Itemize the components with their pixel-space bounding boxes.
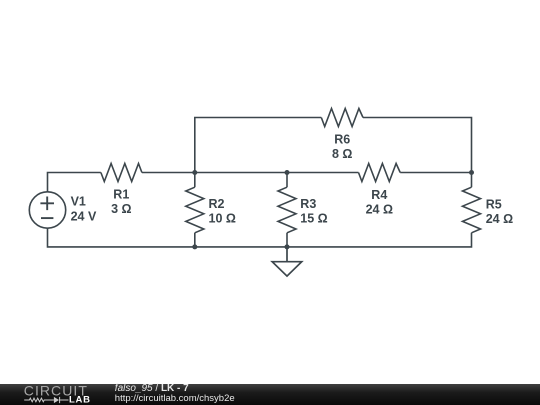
wire: R3 bottom stub: [286, 233, 288, 247]
CircuitLab logo resistor zigzag and diode glyph: [24, 397, 68, 403]
wire: R1 right to node A: [142, 172, 195, 174]
wire: R3 top stub: [286, 173, 288, 188]
node E junction dot (ground): [285, 244, 290, 249]
node B junction dot: [285, 170, 290, 175]
ground symbol: [272, 247, 302, 276]
voltage source V1 plus sign: [40, 197, 54, 211]
resistor R1 zigzag: [101, 164, 142, 182]
wire: bottom net (V1 bottom along bottom to R5 bottom): [48, 228, 472, 247]
svg-text:http://circuitlab.com/chsyb2e: http://circuitlab.com/chsyb2e: [115, 393, 235, 404]
resistor R6 zigzag: [321, 109, 363, 127]
voltage source V1 circle: [29, 192, 65, 228]
voltage source V1 minus sign: [41, 217, 53, 219]
wire: node B to R4 left: [287, 172, 359, 174]
wire: R6 right to node C via right top corner: [363, 118, 472, 173]
node D junction dot (R2 bottom): [192, 244, 197, 249]
footer bar: [0, 384, 540, 405]
wire: main net top-left (V1 top to R1 left): [48, 173, 101, 192]
resistor R2 zigzag: [186, 187, 204, 233]
wire: node A to node B: [195, 172, 287, 174]
node A junction dot: [192, 170, 197, 175]
wire: R2 bottom stub: [194, 233, 196, 247]
resistor R4 zigzag: [359, 164, 401, 182]
CircuitLab logo diode triangle: [54, 397, 59, 403]
wire: top branch node A up and right to R6 left: [195, 118, 321, 173]
svg-text:falso_95 / LK - 7: falso_95 / LK - 7: [115, 383, 189, 394]
resistor R3 zigzag: [278, 187, 296, 233]
wire: R5 top stub: [471, 173, 473, 188]
wire: R4 right to node C: [400, 172, 471, 174]
wire: R2 top stub: [194, 173, 196, 188]
node C junction dot: [469, 170, 474, 175]
svg-text:LAB: LAB: [69, 394, 91, 405]
resistor R5 zigzag: [463, 187, 481, 233]
